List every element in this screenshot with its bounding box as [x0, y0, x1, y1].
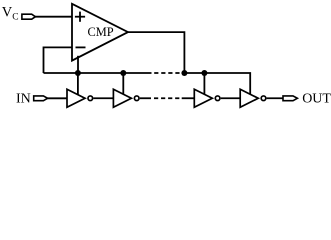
svg-text:IN: IN	[16, 92, 31, 107]
wire IN port to inverter U2	[47, 97, 67, 99]
wire tap from J4 down to inverter U4	[203, 73, 205, 95]
wire control bus left solid segment	[44, 72, 152, 74]
CMP plus input marker	[75, 12, 85, 22]
op-amp U1 comparator CMP	[72, 4, 128, 61]
junction J2 (dot, tap to inverter U3)	[120, 70, 126, 76]
wire control bus dashed segment	[154, 72, 179, 74]
wire tap from J1 down to inverter U2	[77, 73, 79, 95]
port VC (input terminal)	[22, 14, 36, 19]
wire into inverter U4	[182, 97, 195, 99]
wire U4 output to U5 input	[221, 97, 241, 99]
wire feedback from CMP minus input to bus	[44, 47, 73, 73]
wire CMP bottom edge down to node at junction J1	[77, 56, 79, 73]
inverter U2	[67, 89, 93, 107]
wire U3 output solid segment	[140, 97, 151, 99]
inverter U4	[194, 89, 220, 107]
junction J3 (dot, CMP output joins bus)	[181, 70, 187, 76]
wire tap from J2 down to inverter U3	[122, 73, 124, 95]
wire U2 output to U3 input	[93, 97, 113, 99]
svg-text:OUT: OUT	[302, 92, 331, 107]
junction J1 (dot, tap to inverter U2)	[75, 70, 81, 76]
svg-text:V: V	[2, 5, 13, 21]
label V_C	[2, 5, 19, 23]
wire dashed continuation of signal chain	[154, 97, 179, 99]
svg-text:CMP: CMP	[88, 25, 114, 39]
port OUT (output terminal)	[283, 96, 297, 101]
wire CMP output to bus (right angle down)	[128, 32, 184, 73]
svg-text:C: C	[12, 13, 18, 23]
inverter U3	[113, 89, 139, 107]
junction J4 (dot, tap to inverter U4)	[201, 70, 207, 76]
wire U5 output to OUT port	[267, 97, 283, 99]
wire control bus right solid segment with corner down to inverter U5	[182, 73, 251, 95]
inverter U5	[240, 89, 266, 107]
CMP minus input marker	[76, 46, 86, 48]
port IN (input terminal)	[34, 96, 48, 101]
wire VC to CMP plus input	[35, 16, 72, 18]
